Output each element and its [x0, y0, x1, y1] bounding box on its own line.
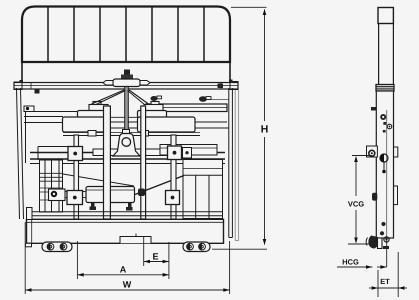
- right mid rail: [160, 145, 217, 156]
- backrest bar 2: [73, 8, 75, 62]
- hook wing left: [103, 81, 113, 86]
- tie bar: [93, 149, 169, 156]
- long rail y152: [30, 152, 225, 154]
- hook base: [113, 79, 140, 87]
- diagonal brace 1: [63, 174, 134, 186]
- post P1: [74, 135, 79, 219]
- W label: [123, 281, 131, 287]
- inter-housing lines: [109, 116, 138, 118]
- hook nub: [121, 70, 133, 80]
- left drop line: [25, 111, 27, 163]
- A+E ext right: [168, 242, 170, 279]
- band left foot: [26, 243, 32, 247]
- HCG ref line: [386, 238, 388, 267]
- ET ext left: [377, 270, 379, 297]
- backrest bar 5: [151, 8, 153, 62]
- side ring bolt: [387, 124, 392, 129]
- VCG label: [348, 201, 353, 206]
- H bottom ext: [212, 248, 267, 250]
- side heel hook: [368, 236, 378, 249]
- backrest bar 3: [99, 8, 101, 62]
- base tabs: [88, 131, 96, 137]
- backrest bar 6: [177, 8, 179, 62]
- W ext right: [229, 241, 231, 294]
- band left step: [27, 208, 33, 220]
- V diagonal left: [92, 90, 125, 104]
- cylinder rod: [65, 192, 86, 198]
- cylinder body: [86, 187, 135, 203]
- side right tab 2: [394, 186, 398, 205]
- VCG bottom ext: [348, 243, 372, 245]
- side left fitting: [371, 107, 376, 111]
- T bolt 1: [90, 203, 97, 211]
- chain anchor right: [144, 102, 163, 112]
- HCG label: [343, 259, 347, 264]
- H top ext: [231, 6, 267, 8]
- W ext left: [24, 222, 26, 294]
- side plate small: [183, 148, 192, 159]
- E dim line: [144, 261, 169, 263]
- side bolt sq2: [383, 130, 386, 133]
- backrest bar 7: [203, 8, 205, 62]
- backrest bar 4: [125, 8, 127, 62]
- right box: [183, 160, 223, 219]
- right outer plate: [234, 90, 236, 241]
- E ext left: [143, 237, 145, 266]
- side bolt gear: [380, 114, 386, 120]
- roller housing right: [183, 242, 210, 252]
- post P3: [141, 106, 146, 219]
- left mid rail: [38, 146, 68, 148]
- diagonal brace 2: [135, 176, 184, 195]
- side bolt sq1: [383, 122, 386, 125]
- left rail bracket: [24, 106, 34, 112]
- top carriage bar: [14, 83, 238, 90]
- T bolt 2: [126, 203, 133, 211]
- chain anchor left: [89, 102, 108, 112]
- side pivot: [380, 154, 388, 162]
- side bolt low2: [380, 231, 384, 235]
- H label: [261, 125, 267, 132]
- cylinder left cap: [49, 189, 66, 201]
- fitting mid2: [151, 96, 162, 101]
- VCG top ext: [352, 155, 372, 157]
- post P2: [104, 106, 111, 219]
- H dim line: [264, 10, 266, 122]
- band bottom step center: [120, 237, 151, 244]
- top bar right cap: [230, 82, 238, 90]
- long rail y159: [30, 158, 225, 160]
- side carriage band: [376, 85, 394, 92]
- left side plate: [17, 88, 20, 219]
- post block top-right: [168, 146, 182, 160]
- right side plate: [228, 88, 230, 238]
- side left roller bracket: [367, 146, 378, 157]
- long rail y163: [30, 163, 225, 165]
- lug tab: [123, 130, 130, 134]
- HCG dim line: [337, 266, 372, 268]
- side roller dark: [372, 193, 377, 201]
- A ext left: [76, 241, 78, 279]
- fitting top-right: [218, 84, 224, 89]
- top bar left cap: [14, 82, 22, 90]
- fitting mid: [199, 96, 229, 102]
- hook wing right: [140, 81, 150, 86]
- V diagonal right: [129, 90, 149, 104]
- A dim line: [77, 274, 168, 276]
- A label: [120, 266, 126, 272]
- backrest right leg: [229, 62, 231, 82]
- housing left: [63, 111, 109, 133]
- housing right: [138, 111, 196, 133]
- side bolt low1: [381, 222, 385, 226]
- center stem: [125, 87, 129, 134]
- post block bottom-right: [166, 191, 180, 205]
- right long bar: [146, 104, 227, 112]
- post P4: [171, 135, 176, 219]
- backrest bar 1: [47, 8, 49, 62]
- bottom band: [27, 219, 224, 243]
- side main plate: [376, 91, 393, 238]
- left upper rail lines: [24, 111, 77, 113]
- center lug: [113, 134, 140, 157]
- VCG dim line: [355, 157, 357, 196]
- lower rail pair: [27, 211, 223, 213]
- load backrest frame: [22, 7, 230, 63]
- roller housing left: [42, 242, 72, 252]
- E label: [153, 253, 158, 259]
- housing base lines: [63, 135, 200, 137]
- fitting top-left: [35, 90, 40, 94]
- post block bottom-left: [67, 191, 83, 205]
- side top cap: [378, 8, 393, 24]
- ET dim line: [369, 287, 378, 289]
- side right tab 1: [394, 147, 398, 157]
- ET label: [381, 279, 385, 284]
- ET ext right: [397, 252, 399, 297]
- post block top-left: [68, 147, 83, 161]
- backrest left leg: [21, 62, 23, 83]
- W dim line: [25, 289, 229, 291]
- left box: [40, 160, 63, 212]
- side upper bar: [378, 24, 380, 86]
- dark hub: [138, 189, 145, 197]
